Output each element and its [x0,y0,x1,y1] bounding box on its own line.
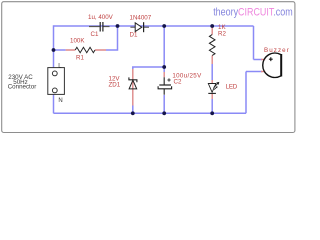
junction node dots [52,24,215,115]
wire top rail [54,25,254,27]
label 230V AC 50Hz Connector [8,74,37,91]
wire from top rail down to node at C2 [163,26,165,67]
wire bottom rail [54,112,247,114]
svg-text:R2: R2 [218,31,226,38]
wire connector bottom to ground rail [53,94,55,113]
border frame [2,2,295,133]
resistor R1 [66,47,106,52]
wire buzzer bottom to ground rail [246,72,262,114]
diode D1 [130,22,149,32]
svg-text:1u, 400V: 1u, 400V [88,14,114,21]
svg-text:C2: C2 [174,79,182,86]
svg-text:Connector: Connector [8,84,37,91]
zener diode ZD1 [129,69,137,106]
buzzer BZ1 [261,53,281,77]
connector J1 230V AC [48,68,65,95]
resistor R2 [209,26,215,64]
wire node C2 left to zener [132,66,164,69]
svg-text:Buzzer: Buzzer [264,47,290,54]
wire C2 column [163,67,165,113]
svg-text:1N4007: 1N4007 [130,14,152,21]
svg-text:D1: D1 [130,31,138,38]
svg-text:LED: LED [226,83,238,90]
LED [208,80,219,99]
wire top rail right corner down to buzzer [254,26,263,60]
wire R1 row and riser to top rail [54,26,119,51]
svg-text:N: N [58,98,62,104]
wire left vertical from rail to connector [53,25,55,67]
svg-text:theoryCIRCUIT.com: theoryCIRCUIT.com [213,7,292,19]
svg-text:C1: C1 [91,31,99,38]
capacitor C2 [158,72,172,95]
wire between R2 and LED [211,64,213,80]
svg-text:R1: R1 [76,54,84,61]
capacitor C1 [89,22,110,32]
wire LED bottom [211,99,213,113]
wire zener bottom [132,106,134,114]
svg-text:100K: 100K [70,38,85,45]
svg-text:ZD1: ZD1 [109,82,121,89]
